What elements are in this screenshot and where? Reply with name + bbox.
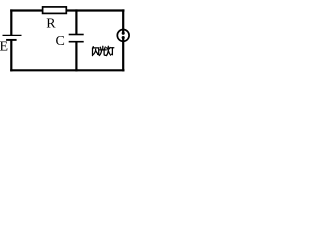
wire top	[10, 9, 124, 11]
flash lamp bottom electrode dot	[122, 36, 125, 39]
battery E short plate	[6, 39, 17, 41]
char 灯	[107, 46, 109, 51]
svg-text:C: C	[56, 34, 65, 49]
flash lamp bottom electrode stub	[122, 38, 124, 43]
wire capacitor branch upper	[75, 9, 77, 34]
char 光	[102, 46, 104, 49]
wire right lower (lamp to bottom)	[122, 41, 124, 71]
wire bottom	[10, 69, 124, 71]
flash lamp circle	[117, 30, 129, 42]
capacitor C top plate	[69, 34, 84, 36]
flash lamp top electrode dot	[122, 32, 125, 35]
svg-text:R: R	[46, 17, 56, 32]
resistor R	[43, 7, 67, 13]
wire right upper (to lamp)	[122, 9, 124, 30]
wire left lower (battery short plate to bottom)	[10, 40, 12, 72]
flash lamp top electrode stub	[122, 29, 124, 34]
svg-text:E: E	[0, 40, 8, 55]
char 闪	[92, 47, 94, 48]
label 闪光灯 (hand-drawn glyphs)	[93, 46, 114, 55]
wire left upper (to battery long plate)	[10, 9, 12, 35]
battery E long plate	[3, 34, 22, 36]
capacitor C bottom plate	[69, 41, 84, 43]
wire capacitor branch lower	[75, 42, 77, 72]
